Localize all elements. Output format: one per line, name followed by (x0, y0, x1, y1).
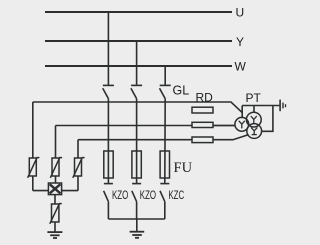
wire counter to arrester4 (54, 195, 56, 204)
wire arrester1 to bus (32, 176, 34, 191)
fuse RD1 (192, 107, 213, 113)
ground left (47, 232, 62, 238)
wire phase2 drop (136, 41, 138, 85)
transformer PT winding A (235, 117, 249, 131)
transformer PT winding B (246, 112, 261, 127)
wire tap H3 (78, 135, 249, 140)
Y symbol winding B (251, 116, 257, 124)
wire arrester drop1 (32, 102, 34, 158)
switch KZC3 (160, 184, 169, 202)
svg-text:KZO: KZO (140, 190, 156, 203)
svg-text:PT: PT (246, 91, 262, 105)
open-delta symbol winding C (251, 127, 257, 134)
wire phase1 drop (107, 12, 109, 85)
wire bottom bus (108, 218, 164, 220)
svg-text:KZO: KZO (112, 190, 128, 203)
wire PT top link (242, 105, 280, 107)
wire phase3 drop (164, 66, 166, 85)
counter JS box (48, 183, 61, 195)
switch KZO2 (132, 184, 141, 202)
ground PT (280, 100, 285, 112)
arrester FV3 (73, 157, 85, 178)
wire arrester3 to bus (77, 176, 79, 191)
fuse FU2 (132, 151, 141, 178)
switch KZO1 (104, 184, 113, 202)
wire PT middle stub (253, 106, 255, 113)
wire phase3 through fuse (164, 99, 166, 184)
switch GL pole2 (131, 85, 142, 98)
wire phase1 through fuse (107, 99, 109, 184)
wire tap H2 (56, 125, 236, 127)
svg-text:U: U (236, 6, 245, 20)
fuse FU3 (160, 151, 169, 178)
svg-text:FU: FU (174, 160, 193, 176)
arrester FV4 (50, 203, 62, 224)
svg-text:KZC: KZC (168, 190, 184, 203)
wire tap H1 (33, 102, 242, 113)
wire through RD2 (213, 125, 235, 127)
bus U (45, 11, 232, 13)
arrester FV1 (28, 157, 40, 178)
wire arrester2 to counter (55, 176, 57, 183)
wire PT left stub (241, 106, 243, 119)
wire arrester drop2 (55, 126, 57, 159)
svg-text:W: W (235, 60, 247, 74)
switch GL pole1 (103, 85, 114, 98)
wire phase2 through fuse (136, 99, 138, 184)
transformer PT winding C (247, 124, 262, 139)
switch GL pole3 (160, 85, 171, 98)
arrester FV2 (50, 157, 62, 178)
fuse FU1 (104, 151, 113, 178)
fuse RD3 (192, 137, 213, 143)
bus W (45, 65, 232, 67)
svg-text:GL: GL (173, 84, 190, 98)
ground center (130, 232, 145, 238)
wire bus to ground (136, 219, 138, 231)
bus Y (45, 40, 232, 42)
svg-text:Y: Y (236, 35, 244, 49)
wire left bus (33, 190, 78, 192)
fuse RD2 (192, 122, 213, 127)
wire KZO1 down (107, 202, 109, 219)
wire PT right side (261, 106, 273, 132)
wire KZO2 down (136, 202, 138, 219)
Y symbol winding A (239, 121, 245, 129)
wire arrester drop3 (77, 140, 79, 158)
wire arrester4 to ground (54, 222, 56, 232)
wire KZC3 down (164, 202, 166, 219)
svg-text:RD: RD (196, 91, 214, 105)
